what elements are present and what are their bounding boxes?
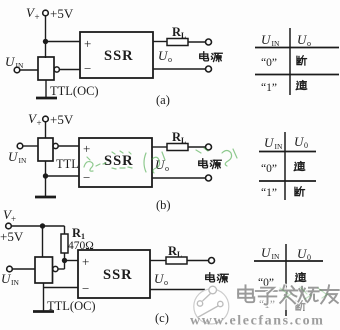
svg-text:+5V: +5V bbox=[50, 6, 74, 21]
svg-text:“1”: “1” bbox=[261, 187, 277, 199]
svg-text:TTL: TTL bbox=[56, 157, 79, 171]
svg-text:IN: IN bbox=[272, 252, 280, 261]
svg-text:U: U bbox=[264, 135, 275, 150]
svg-text:“1”: “1” bbox=[261, 82, 277, 94]
svg-text:U: U bbox=[261, 245, 272, 260]
svg-text:+: + bbox=[35, 12, 40, 22]
svg-text:0: 0 bbox=[307, 253, 311, 262]
svg-text:L: L bbox=[177, 250, 182, 259]
svg-text:+: + bbox=[83, 141, 90, 156]
svg-text:o: o bbox=[164, 278, 168, 287]
svg-text:SSR: SSR bbox=[103, 267, 133, 283]
svg-text:TTL(OC): TTL(OC) bbox=[47, 299, 96, 313]
svg-text:IN: IN bbox=[272, 39, 280, 48]
svg-text:U: U bbox=[8, 149, 19, 164]
svg-text:+: + bbox=[82, 254, 89, 269]
svg-text:IN: IN bbox=[275, 142, 283, 151]
svg-text:(b): (b) bbox=[156, 198, 171, 212]
svg-text:U: U bbox=[5, 54, 16, 69]
svg-text:o: o bbox=[307, 39, 311, 48]
svg-text:SSR: SSR bbox=[104, 48, 134, 64]
svg-text:SSR: SSR bbox=[104, 153, 134, 169]
svg-text:(a): (a) bbox=[156, 93, 170, 107]
svg-text:+5V: +5V bbox=[0, 229, 24, 244]
svg-text:IN: IN bbox=[16, 61, 24, 70]
svg-text:U: U bbox=[261, 32, 272, 47]
svg-text:TTL(OC): TTL(OC) bbox=[50, 84, 99, 98]
svg-text:+: + bbox=[11, 214, 16, 224]
svg-text:IN: IN bbox=[11, 278, 19, 287]
svg-text:(c): (c) bbox=[155, 311, 169, 325]
svg-text:IN: IN bbox=[19, 156, 27, 165]
svg-text:470Ω: 470Ω bbox=[68, 240, 94, 252]
svg-text:+: + bbox=[84, 36, 91, 51]
svg-text:L: L bbox=[181, 31, 186, 40]
svg-text:www.elecfans.com: www.elecfans.com bbox=[190, 314, 324, 329]
svg-text:“0”: “0” bbox=[261, 57, 277, 69]
svg-text:+: + bbox=[37, 118, 42, 128]
svg-text:“0”: “0” bbox=[261, 163, 277, 175]
svg-text:−: − bbox=[83, 170, 90, 185]
svg-text:o: o bbox=[165, 164, 169, 173]
svg-text:+5V: +5V bbox=[50, 112, 74, 127]
svg-text:L: L bbox=[181, 136, 186, 145]
svg-text:o: o bbox=[168, 55, 172, 64]
svg-text:0: 0 bbox=[304, 141, 308, 150]
svg-text:−: − bbox=[84, 61, 91, 76]
svg-text:−: − bbox=[82, 281, 89, 296]
